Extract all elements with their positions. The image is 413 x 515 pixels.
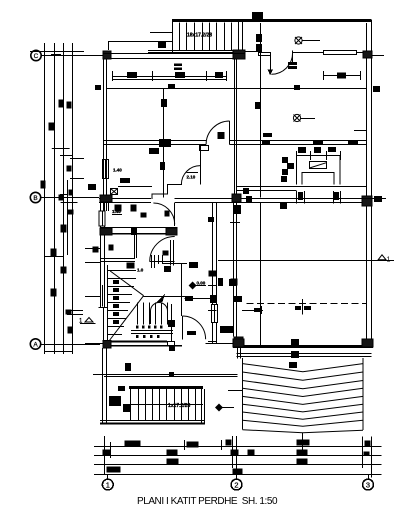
blobs left of fireplace	[282, 157, 288, 163]
stair treads	[108, 278, 136, 280]
door D4 leaf	[174, 203, 176, 226]
extension ticks left pair	[110, 442, 112, 458]
section marker 1 right	[378, 255, 390, 263]
extension line grid1	[104, 436, 106, 475]
stair handrail tick	[150, 32, 172, 34]
grid circle 2	[231, 474, 242, 490]
top level blob	[252, 12, 263, 22]
corridor blobs	[218, 278, 223, 286]
extension mid ticks	[184, 440, 186, 450]
column grid A left wall	[103, 341, 111, 349]
terrace blobs	[291, 339, 299, 346]
wall y88	[107, 88, 366, 90]
right wall blob	[374, 196, 382, 202]
grid A wall line	[85, 343, 108, 345]
line mid	[144, 296, 187, 298]
column terrace right	[362, 339, 373, 347]
porch wall with window segment	[293, 52, 324, 54]
dim text blobs	[103, 440, 371, 475]
column grid 2-B	[232, 194, 241, 202]
svg-text:1.0: 1.0	[137, 268, 144, 273]
chair symbol left	[297, 191, 305, 204]
stair top edge	[108, 270, 136, 272]
room dim line short	[242, 310, 263, 312]
beam mid blob	[131, 227, 137, 235]
niche below wall	[200, 146, 209, 151]
dim line 4	[94, 474, 382, 476]
grid C upper tick	[30, 51, 84, 53]
stair dim line right	[171, 304, 173, 342]
stair risers lower flight	[137, 303, 139, 325]
grid circle B	[30, 192, 40, 202]
left wall lower pair	[103, 308, 105, 345]
stair left blob	[158, 41, 165, 47]
column top-mid	[233, 50, 245, 59]
wall jog	[99, 307, 109, 309]
extension grid2 left	[232, 436, 234, 468]
svg-text:1: 1	[387, 256, 391, 263]
door D5 arc	[150, 237, 175, 262]
direction arrowhead	[157, 293, 166, 302]
dim line 1	[94, 446, 382, 448]
stair top edge thick	[129, 386, 203, 389]
window bar top right	[324, 51, 357, 55]
grid line A	[41, 344, 100, 346]
left dim text blobs	[41, 100, 74, 334]
column grid 3-B	[362, 196, 372, 206]
extension grid3	[371, 437, 373, 478]
hall wall verticals small	[158, 255, 160, 264]
svg-text:B: B	[33, 195, 37, 202]
door D3 stub	[200, 145, 202, 166]
beam column right	[166, 228, 177, 235]
center label blobs	[295, 306, 301, 310]
kitchen divider vertical x260	[260, 89, 262, 198]
entry door leaf arrowhead	[268, 70, 274, 76]
terrace outline	[243, 358, 364, 430]
svg-text:PLANI I KATIT PERDHE SH. 1:50: PLANI I KATIT PERDHE SH. 1:50	[137, 496, 278, 507]
corridor window	[212, 304, 218, 323]
extension grid3 left	[362, 437, 364, 468]
interior vertical wall x163.7	[163, 89, 165, 198]
blob on mid line	[185, 296, 193, 301]
stair lower lines	[131, 330, 173, 332]
window left wall below B	[104, 203, 109, 211]
window lower mid-line	[102, 285, 104, 307]
counter dim line	[297, 155, 341, 157]
grid circle 1	[102, 474, 113, 490]
room blobs	[93, 205, 238, 286]
section line 1	[218, 260, 394, 262]
beam band outline	[100, 227, 178, 229]
door D6 leaf	[182, 316, 184, 339]
dashed center line	[246, 303, 366, 305]
glazing vertical x260	[260, 203, 262, 345]
hall wall pair left	[151, 255, 153, 268]
svg-text:1.40: 1.40	[113, 168, 122, 173]
corridor left wall double	[212, 203, 214, 304]
step marks left	[113, 280, 119, 324]
door D5 leaf	[150, 261, 175, 263]
porch step wall	[245, 51, 258, 53]
left dim vertical line 3	[63, 43, 65, 354]
left wall lower double	[100, 203, 102, 308]
tick above terrace left	[228, 390, 243, 392]
svg-text:1: 1	[106, 480, 110, 489]
left dim vertical line 2	[54, 43, 56, 354]
column top-left	[103, 51, 111, 59]
stair left edge	[172, 20, 174, 53]
hall wall vertical double	[170, 240, 172, 266]
svg-text:18x17.2/28: 18x17.2/28	[187, 33, 212, 39]
level marker 0.00	[189, 281, 206, 290]
column square with X	[111, 189, 118, 195]
stair top edge thick	[172, 19, 372, 22]
door D3 arc	[181, 166, 200, 185]
entry door leaf	[270, 56, 272, 71]
terrace edge lines	[236, 353, 371, 355]
beam column left	[100, 228, 112, 235]
blobs on wall y141	[262, 140, 270, 145]
room divider wall y374	[93, 374, 238, 376]
window left wall lower	[99, 211, 105, 226]
label 2.10 underline	[186, 172, 198, 174]
wc wall horizontal	[100, 258, 135, 260]
right wall tick y130	[354, 130, 366, 132]
section marker 1 left	[79, 318, 96, 325]
stair left edge	[130, 389, 132, 421]
stair diagonal edge upper	[110, 271, 143, 296]
top dim line	[108, 41, 172, 43]
entry approx blobs	[288, 62, 297, 65]
blob left of grid B	[88, 184, 96, 190]
left dim vertical line 5 partial	[67, 180, 69, 255]
door D2 leaf	[229, 121, 231, 145]
door D6 label blob	[187, 331, 196, 335]
left dim ticks	[51, 54, 61, 56]
bottom-left block left wall	[102, 348, 104, 424]
riser mark row2	[136, 335, 160, 338]
grid A beam end box	[168, 342, 175, 346]
fireplace arch	[302, 173, 334, 185]
bottom wall	[100, 420, 205, 422]
level blobs	[118, 386, 125, 391]
light fixture 1	[295, 37, 320, 44]
stair left wall	[107, 265, 109, 340]
grid line C	[42, 55, 104, 57]
dim tick 1.40	[112, 214, 122, 216]
wc wall vertical double	[134, 234, 136, 258]
stair diagonal edge long	[109, 296, 144, 341]
extension grid2	[236, 436, 238, 478]
column grid B left	[100, 195, 112, 202]
entry door arc	[271, 53, 292, 75]
right outer wall outer line	[371, 20, 373, 347]
window left wall	[103, 160, 109, 179]
stair right edge	[201, 389, 203, 424]
light fixture 2	[293, 114, 315, 121]
level text blobs	[256, 34, 262, 42]
blob below porch divider	[255, 102, 261, 109]
terrace centre extension	[302, 433, 304, 443]
porch dim line	[324, 75, 361, 77]
wall right of window	[356, 52, 366, 54]
room blobs upper	[125, 363, 131, 371]
svg-text:1x17.2/28: 1x17.2/28	[168, 403, 190, 409]
door D4 arc	[153, 203, 174, 224]
dim tick through right wall	[372, 55, 385, 57]
risers	[138, 389, 140, 421]
stair risers	[179, 23, 181, 51]
grid A beam thick	[108, 341, 167, 343]
dim line 3	[94, 464, 382, 466]
terrace left stub pair	[237, 347, 239, 359]
grid A wall line2	[104, 345, 182, 347]
chevron lines	[243, 364, 364, 427]
grid line B	[41, 197, 99, 199]
entry door jamb right	[292, 51, 294, 66]
terrace top wall thick	[233, 345, 373, 348]
left dim vertical line 4	[72, 43, 74, 354]
entry wall stub	[259, 53, 271, 56]
column right wall	[363, 51, 372, 58]
door D2 arc	[206, 121, 230, 145]
left dim vertical line 1	[44, 43, 46, 354]
chair row blob	[280, 202, 287, 209]
left wall upper double	[103, 60, 105, 198]
level marker right of stair	[215, 404, 234, 412]
riser mark row1	[136, 326, 163, 329]
room divider wall y187	[237, 186, 366, 188]
svg-text:0.00: 0.00	[197, 281, 206, 286]
right outer wall inner line	[366, 23, 368, 347]
grid B wall double	[99, 198, 151, 200]
svg-text:C: C	[34, 53, 39, 60]
top wall double line	[103, 53, 245, 55]
wall break tick left	[85, 248, 100, 250]
approx marks under stair	[174, 64, 182, 67]
wall y141/145 double left part	[104, 140, 207, 142]
fireplace inner rect with diagonal	[310, 162, 327, 169]
corridor right dimline	[233, 203, 235, 337]
wc zigzag wall	[152, 184, 182, 199]
door D6 arc	[182, 316, 205, 339]
grid B tick right	[341, 198, 386, 200]
svg-text:2: 2	[234, 480, 238, 489]
direction U-turn	[151, 303, 168, 325]
counter blobs	[298, 147, 306, 153]
grid circle 3	[363, 474, 374, 490]
corridor ticks	[208, 285, 217, 287]
column grid2-A	[234, 337, 243, 347]
door D3 leaf	[200, 166, 202, 185]
porch jamb vertical	[260, 23, 262, 89]
hall right wall vertical	[181, 264, 183, 317]
center cross tick	[302, 299, 304, 315]
wall y141/145 double right part	[230, 140, 367, 142]
dim line 2	[94, 455, 382, 457]
fireplace sides	[297, 156, 341, 185]
stair mid line	[131, 404, 203, 406]
svg-text:3: 3	[366, 480, 370, 489]
hall wall horizontal	[163, 263, 188, 265]
stair side string lines	[148, 50, 242, 52]
svg-text:A: A	[33, 341, 38, 348]
left wall ticks	[85, 262, 100, 264]
svg-text:2.10: 2.10	[187, 175, 196, 180]
corridor wall pair	[234, 60, 236, 195]
column terrace left	[233, 339, 244, 347]
chair symbol right	[334, 191, 341, 204]
grid circle C	[31, 50, 41, 60]
wall y186 left segment	[118, 186, 152, 188]
room dim line	[112, 76, 227, 78]
grid circle A	[30, 339, 40, 349]
blob on wall	[159, 139, 171, 147]
